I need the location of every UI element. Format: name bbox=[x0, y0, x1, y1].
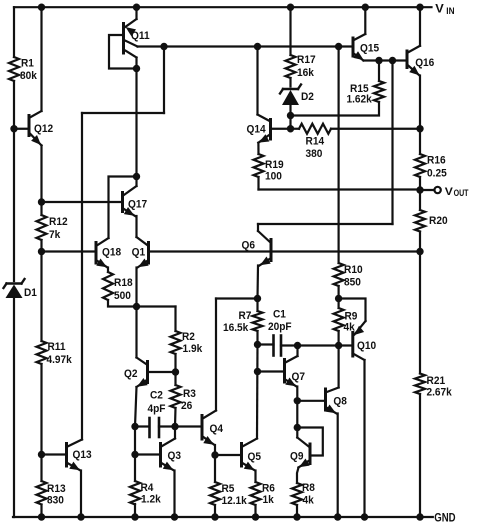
node R8 ground junction bbox=[293, 513, 300, 520]
wire Q2 base bbox=[148, 371, 176, 373]
svg-text:R1: R1 bbox=[21, 57, 34, 69]
wire R1 bottom to D1 bbox=[13, 81, 15, 281]
wire Q16 base net down bbox=[391, 61, 393, 225]
svg-text:0.25: 0.25 bbox=[427, 168, 447, 180]
node Q8 emitter ground junction bbox=[334, 513, 341, 520]
svg-text:20pF: 20pF bbox=[268, 321, 292, 333]
transistor Q9 bbox=[309, 444, 312, 464]
svg-text:R11: R11 bbox=[48, 341, 67, 353]
wire R2 top lead bbox=[174, 307, 176, 332]
svg-text:R21: R21 bbox=[427, 375, 446, 387]
wire Q6 collector up bbox=[257, 224, 259, 231]
wire x164 down bbox=[163, 47, 165, 114]
node Q13 emitter ground junction bbox=[77, 513, 84, 520]
svg-text:Q9: Q9 bbox=[290, 451, 304, 463]
wire C2 to Q4 base bbox=[175, 425, 202, 427]
resistor R11 bbox=[37, 341, 47, 364]
wire GND bottom rail bbox=[13, 516, 433, 518]
node R12 bottom junction bbox=[38, 248, 45, 255]
wire Q2 emitter down bbox=[135, 387, 137, 427]
resistor R19 bbox=[254, 154, 264, 177]
node R9 bottom junction bbox=[335, 342, 342, 349]
capacitor C2 bbox=[135, 425, 149, 427]
node C2 left junction bbox=[131, 423, 138, 430]
wire Q11 collector bus down to Q17 bbox=[135, 69, 137, 177]
svg-text:Q15: Q15 bbox=[360, 43, 380, 55]
svg-text:1.62k: 1.62k bbox=[347, 94, 373, 106]
svg-text:R19: R19 bbox=[265, 159, 284, 171]
wire R21 top lead bbox=[419, 252, 421, 374]
resistor R2 bbox=[171, 331, 181, 354]
svg-text:Q18: Q18 bbox=[102, 247, 121, 259]
capacitor C1 bbox=[258, 343, 274, 345]
resistor R8 bbox=[292, 483, 302, 505]
resistor R20 bbox=[415, 210, 425, 232]
wire Q5 base bbox=[215, 454, 242, 456]
transistor Q1 bbox=[147, 243, 150, 264]
wire Q14 collector vertical bbox=[256, 47, 258, 115]
wire Q15 emitter bus bbox=[364, 59, 408, 61]
resistor R9 bbox=[334, 308, 344, 331]
transistor Q14 bbox=[269, 120, 272, 140]
resistor R6 bbox=[251, 482, 261, 505]
svg-text:7k: 7k bbox=[49, 229, 61, 241]
transistor Q16 bbox=[406, 51, 409, 68]
svg-text:500: 500 bbox=[114, 290, 131, 302]
wire y111 left to x82 bbox=[82, 112, 164, 114]
wire D1 anode down to ground rail bbox=[13, 298, 15, 517]
svg-text:C2: C2 bbox=[150, 390, 163, 402]
svg-text:R14: R14 bbox=[306, 135, 325, 147]
wire D2 anode lead bbox=[289, 105, 291, 116]
svg-text:Q14: Q14 bbox=[247, 123, 267, 135]
node wire junction at x164 bbox=[160, 43, 167, 50]
svg-text:R7: R7 bbox=[239, 310, 252, 322]
wire R12 bottom to R11 bbox=[40, 240, 42, 341]
resistor R12 bbox=[37, 215, 47, 240]
svg-text:Q7: Q7 bbox=[292, 371, 306, 383]
wire VIN top rail bbox=[14, 6, 432, 8]
svg-text:100: 100 bbox=[265, 170, 282, 182]
wire R13 bottom to ground bbox=[40, 505, 42, 518]
svg-text:16.5k: 16.5k bbox=[223, 322, 249, 334]
svg-text:Q2: Q2 bbox=[124, 368, 138, 380]
wire Q16 collector to rail bbox=[419, 7, 421, 46]
svg-text:Q17: Q17 bbox=[128, 199, 147, 211]
svg-text:D2: D2 bbox=[301, 91, 314, 103]
wire R7 bottom lead bbox=[256, 331, 258, 345]
svg-text:V: V bbox=[435, 2, 444, 16]
svg-text:IN: IN bbox=[446, 5, 454, 16]
svg-text:R12: R12 bbox=[49, 216, 68, 228]
transistor Q6 bbox=[270, 240, 273, 261]
wire R5 top lead bbox=[214, 455, 216, 482]
transistor Q15 bbox=[352, 38, 355, 56]
node R10 top junction bbox=[335, 43, 342, 50]
wire VOUT sense line bbox=[259, 188, 421, 190]
wire Q13 emitter to ground bbox=[80, 471, 82, 518]
wire rail to R17 bbox=[289, 7, 291, 55]
zener diode D2 bbox=[283, 88, 298, 90]
resistor R10 bbox=[334, 263, 344, 286]
resistor R4 bbox=[130, 481, 140, 505]
wire tail node to R2 bbox=[137, 305, 176, 307]
wire Q14 base bbox=[271, 128, 291, 130]
wire Q8 emitter to ground bbox=[337, 414, 339, 518]
transistor Q5 bbox=[240, 444, 243, 467]
wire R18 bottom to tail node bbox=[108, 300, 137, 307]
transistor Q4 bbox=[201, 416, 204, 440]
svg-text:1.2k: 1.2k bbox=[141, 494, 161, 506]
svg-text:Q11: Q11 bbox=[131, 30, 150, 42]
node R12 top junction bbox=[38, 198, 45, 205]
node Q8 base junction bbox=[294, 397, 301, 404]
wire R2 bottom to node bbox=[174, 354, 176, 385]
wire Q17 emitter down bbox=[135, 216, 137, 237]
svg-text:Q1: Q1 bbox=[132, 247, 146, 259]
node D2 anode junction bbox=[287, 112, 294, 119]
svg-text:Q5: Q5 bbox=[248, 451, 262, 463]
node Q17 collector junction bbox=[133, 173, 140, 180]
svg-text:Q13: Q13 bbox=[73, 449, 92, 461]
node Q16 emitter junction bbox=[416, 125, 423, 132]
svg-text:R16: R16 bbox=[427, 155, 446, 167]
svg-text:26: 26 bbox=[181, 400, 192, 412]
node R2-R3-Q2 base junction bbox=[172, 368, 179, 375]
wire Q7 base bbox=[258, 370, 285, 372]
transistor Q13 bbox=[65, 444, 68, 467]
node C1 right junction bbox=[294, 342, 301, 349]
svg-text:Q16: Q16 bbox=[415, 57, 434, 69]
wire VOUT stub bbox=[420, 189, 435, 191]
node R15 top junction bbox=[375, 57, 382, 64]
wire D2 node down bbox=[289, 116, 291, 129]
node Q3 emitter ground junction bbox=[171, 513, 178, 520]
transistor Q10 bbox=[351, 333, 354, 357]
wire junction to Q13 base bbox=[42, 453, 67, 455]
wire Q12 emitter to R12 bbox=[40, 146, 42, 216]
wire Q18 emitter to R18 bbox=[107, 268, 109, 273]
node R5 ground junction bbox=[211, 513, 218, 520]
wire Q4 emitter down bbox=[214, 445, 216, 455]
svg-text:Q10: Q10 bbox=[357, 340, 376, 352]
svg-text:R6: R6 bbox=[262, 483, 275, 495]
node Q4 emitter junction bbox=[211, 451, 218, 458]
wire Q5 collector up to R7 node bbox=[256, 345, 259, 439]
node R11-R13-Q13 junction bbox=[38, 451, 45, 458]
node Q10 collector ground junction bbox=[361, 513, 368, 520]
svg-text:R2: R2 bbox=[182, 331, 195, 343]
node rail junction above R17 bbox=[287, 3, 294, 10]
svg-text:GND: GND bbox=[434, 511, 456, 525]
svg-text:16k: 16k bbox=[297, 67, 314, 79]
wire Q2 collector up to tail node bbox=[135, 307, 137, 358]
wire Q6 emitter down bbox=[256, 266, 259, 299]
svg-text:4.97k: 4.97k bbox=[47, 354, 73, 366]
wire Q1 base feedback line bbox=[149, 250, 421, 252]
node R20-R21 junction bbox=[416, 248, 423, 255]
svg-text:850: 850 bbox=[344, 277, 361, 289]
svg-text:12.1k: 12.1k bbox=[222, 495, 248, 507]
wire R16 top lead bbox=[419, 129, 421, 154]
svg-text:80k: 80k bbox=[20, 70, 37, 82]
wire R9 top lead bbox=[338, 299, 340, 309]
wire Q9 emitter to R8 bbox=[297, 468, 299, 484]
svg-text:830: 830 bbox=[47, 495, 64, 507]
svg-text:OUT: OUT bbox=[454, 188, 469, 198]
svg-text:V: V bbox=[445, 186, 454, 198]
svg-text:D1: D1 bbox=[24, 287, 37, 299]
wire R10 bottom lead bbox=[338, 286, 340, 299]
wire Q11 base loop bbox=[109, 35, 137, 69]
resistor R14 bbox=[291, 128, 300, 130]
wire R6 to ground bbox=[254, 505, 256, 517]
node Q15 collector rail junction bbox=[362, 3, 369, 10]
wire Q3 emitter to ground bbox=[173, 471, 175, 518]
wire R15 top lead bbox=[378, 61, 380, 82]
wire R14 to Q16 emitter node bbox=[331, 128, 420, 130]
svg-text:1k: 1k bbox=[263, 494, 275, 506]
svg-text:1.9k: 1.9k bbox=[183, 343, 203, 355]
wire Q7 emitter down to Q9 bbox=[296, 387, 298, 438]
wire Q5 emitter to R6 bbox=[254, 471, 256, 483]
zener diode D1 bbox=[7, 282, 22, 284]
wire R10 branch vertical bbox=[338, 47, 340, 264]
svg-text:R17: R17 bbox=[297, 54, 316, 66]
wire Q18 collector up and over to Q17 node bbox=[109, 177, 137, 239]
wire R8 to ground bbox=[296, 505, 298, 517]
resistor R17 bbox=[286, 55, 296, 78]
svg-text:C1: C1 bbox=[273, 309, 286, 321]
svg-text:R18: R18 bbox=[114, 277, 133, 289]
wire left rail segment bbox=[13, 7, 15, 57]
resistor R16 bbox=[415, 154, 425, 177]
node VOUT junction bbox=[416, 186, 423, 193]
node tail junction bbox=[133, 303, 140, 310]
resistor R5 bbox=[210, 482, 220, 505]
wire R9 bottom lead bbox=[338, 331, 340, 346]
transistor Q3 bbox=[159, 444, 162, 467]
node Q11 base-collector junction bbox=[133, 65, 140, 72]
wire D2 node to R15 bottom bbox=[291, 102, 380, 116]
wire Q8 collector up to R9 node bbox=[338, 346, 340, 388]
node GND rail end junction bbox=[416, 513, 423, 520]
node R4 top junction bbox=[131, 451, 138, 458]
wire R20 bottom lead bbox=[419, 232, 421, 252]
transistor Q18 bbox=[95, 243, 98, 264]
resistor R21 bbox=[415, 374, 425, 395]
resistor R7 bbox=[253, 311, 263, 331]
svg-text:R13: R13 bbox=[47, 483, 66, 495]
transistor Q2 bbox=[146, 362, 149, 383]
wire x82 vertical from Q11 net down to Q13 collector bbox=[81, 113, 83, 440]
node Q16 base junction bbox=[389, 57, 396, 64]
node R4 ground junction bbox=[131, 513, 138, 520]
resistor R15 bbox=[374, 81, 384, 102]
wire Q11 collector1 bus right bbox=[138, 45, 354, 47]
svg-text:Q12: Q12 bbox=[34, 123, 53, 135]
svg-text:R20: R20 bbox=[429, 215, 448, 227]
wire Q10 emitter loop bbox=[339, 299, 366, 322]
svg-text:4pF: 4pF bbox=[148, 403, 166, 415]
node R1-Q12 base junction bbox=[10, 125, 17, 132]
wire Q3 collector up to C2 node bbox=[174, 427, 176, 439]
wire Q1 emitter to tail node bbox=[135, 268, 137, 307]
transistor Q8 bbox=[324, 389, 327, 410]
node R7 top junction bbox=[254, 295, 261, 302]
resistor R18 bbox=[103, 272, 113, 300]
wire Q4 collector over to Q6 emitter node bbox=[216, 297, 258, 299]
svg-text:R8: R8 bbox=[302, 482, 315, 494]
wire R21 to ground bbox=[419, 394, 421, 517]
node C2 right junction bbox=[171, 423, 178, 430]
node Q14 base junction bbox=[287, 125, 294, 132]
wire Q6 collector right to Q16 base line bbox=[258, 223, 393, 225]
node Q14 collector junction bbox=[254, 43, 261, 50]
resistor R1 bbox=[9, 57, 19, 81]
wire R16 bottom lead bbox=[419, 177, 421, 210]
svg-text:R5: R5 bbox=[222, 483, 235, 495]
node R6 ground junction bbox=[252, 513, 259, 520]
wire R12 top to Q17 base bbox=[42, 201, 123, 203]
svg-text:4k: 4k bbox=[303, 495, 315, 507]
wire R3 bottom lead bbox=[174, 408, 177, 427]
wire Q16 emitter down bbox=[419, 76, 421, 129]
wire C2 left node down bbox=[134, 427, 136, 482]
transistor Q12 bbox=[28, 116, 31, 136]
transistor Q11 bbox=[135, 7, 137, 19]
node VIN rail end junction bbox=[416, 3, 423, 10]
svg-text:2.67k: 2.67k bbox=[427, 387, 453, 399]
node Q9 base loop junction bbox=[294, 424, 301, 431]
svg-text:380: 380 bbox=[306, 148, 323, 160]
svg-text:R4: R4 bbox=[141, 482, 154, 494]
wire Q15 collector to rail bbox=[364, 7, 366, 34]
resistor R13 bbox=[37, 481, 47, 505]
wire R7 top lead bbox=[256, 299, 258, 312]
wire R5 to ground bbox=[214, 505, 216, 517]
node top rail junction A bbox=[38, 3, 45, 10]
wire R4 to ground bbox=[134, 504, 136, 517]
wire C1 node to Q10 base bbox=[298, 344, 353, 346]
wire R17 to D2 bbox=[289, 78, 291, 87]
wire Q3 base bbox=[135, 453, 161, 455]
svg-text:R3: R3 bbox=[183, 388, 196, 400]
wire Q10 collector to ground bbox=[363, 360, 365, 517]
resistor R3 bbox=[171, 385, 181, 408]
svg-text:R10: R10 bbox=[344, 264, 363, 276]
node R13 ground junction bbox=[38, 513, 45, 520]
node R10-R9 junction bbox=[335, 295, 342, 302]
terminal VOUT bbox=[434, 187, 440, 193]
wire R12 bottom to Q18 base bbox=[42, 250, 97, 252]
wire Q14 emitter to R19 bbox=[257, 143, 259, 154]
wire Q9 base loop bbox=[297, 428, 323, 456]
wire top rail to Q12 collector bbox=[40, 7, 42, 111]
transistor Q17 bbox=[121, 193, 124, 212]
svg-text:Q4: Q4 bbox=[210, 423, 224, 435]
wire Q7 collector up to C1 node bbox=[296, 346, 298, 357]
wire Q8 base bbox=[297, 400, 325, 402]
wire R11 bottom to R13 bbox=[40, 364, 42, 481]
svg-text:Q8: Q8 bbox=[333, 396, 347, 408]
wire R19 bottom lead bbox=[257, 177, 259, 190]
node Q7 base junction bbox=[254, 368, 261, 375]
node R7 bottom junction bbox=[254, 341, 261, 348]
transistor Q7 bbox=[283, 360, 286, 383]
svg-text:Q6: Q6 bbox=[242, 240, 256, 252]
wire Q4 collector up bbox=[215, 299, 217, 411]
node Q11 emitter rail junction bbox=[133, 3, 140, 10]
svg-text:Q3: Q3 bbox=[168, 450, 182, 462]
